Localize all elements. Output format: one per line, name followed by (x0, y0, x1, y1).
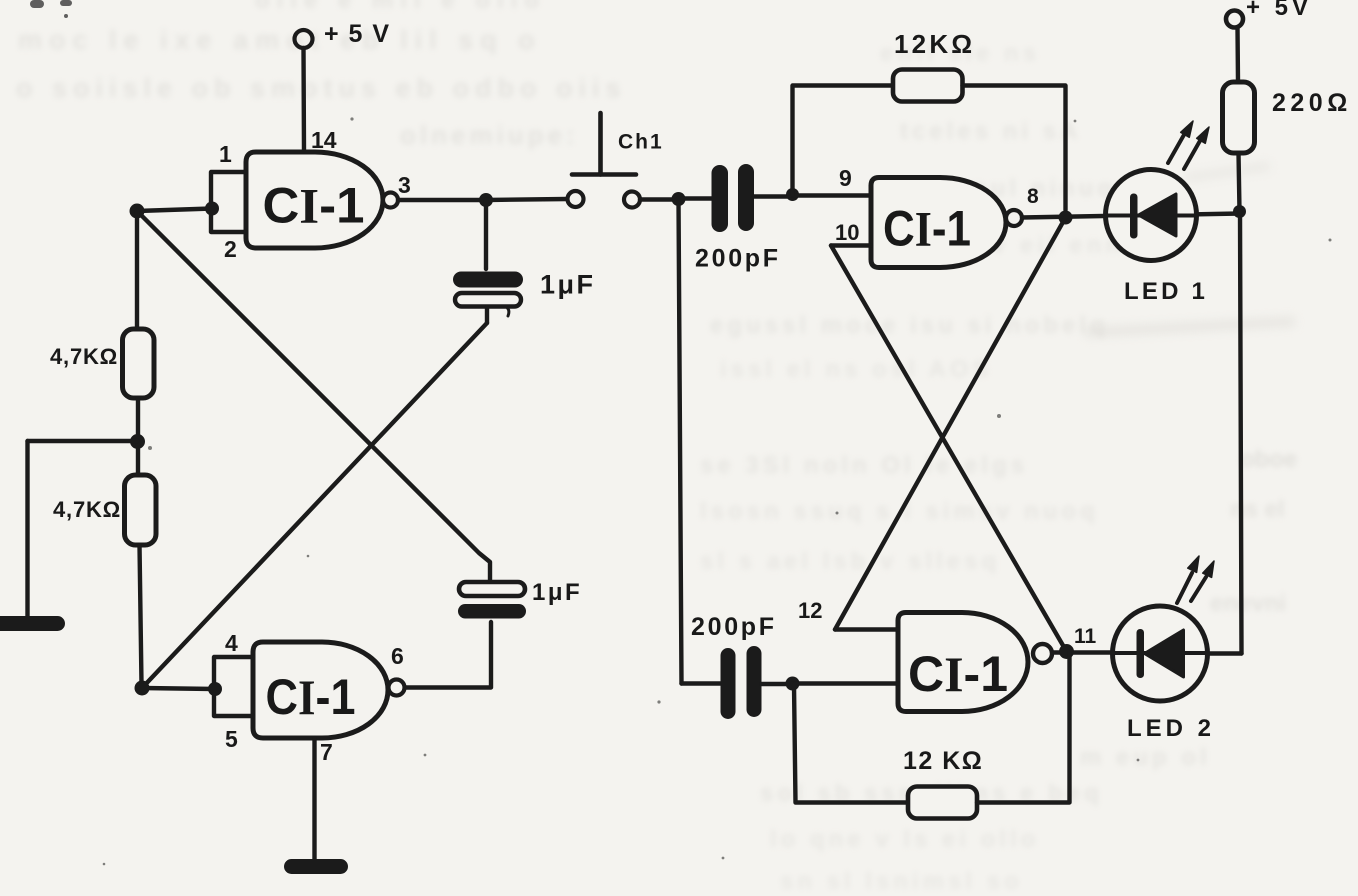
wire: diagonal C1 to node D (gate U1b input) (142, 323, 487, 688)
wire: ground drop vertical (25, 441, 29, 616)
+5V supply terminal (right) (1226, 0, 1312, 28)
svg-text:LED 2: LED 2 (1127, 715, 1215, 742)
resistor R5 12K (bottom feedback) (908, 787, 977, 819)
wire: pin 7 of U1b to ground (312, 738, 316, 859)
input bracket tying pins 1-2 of U1a (211, 172, 246, 232)
wire: node F up and over to R3 (793, 86, 894, 195)
svg-text:Ch1: Ch1 (618, 131, 664, 154)
wire: R4 down to node I (1239, 153, 1240, 211)
wire: LED2 right to rail (1207, 651, 1242, 655)
wire: R3 to U1c output node G (963, 86, 1066, 211)
LED1 (1106, 121, 1210, 261)
+5V supply terminal (left) (295, 20, 391, 48)
resistor R2 4,7K (125, 475, 157, 545)
node E junction (R1/R2/ground branch) (130, 434, 145, 449)
resistor R4 220 ohm (1223, 82, 1255, 153)
svg-text:1: 1 (219, 141, 232, 167)
faint print-through background text (0, 0, 1358, 1)
wire: R1 to node E (136, 398, 140, 441)
svg-text:8: 8 (1027, 185, 1039, 208)
wire: +5V terminal to pin 14 of U1a (301, 48, 306, 152)
svg-text:1μF: 1μF (540, 270, 596, 300)
node B junction (pin3 / C1 / switch) (479, 193, 493, 207)
node A junction (gate1 input / R1 / diagonal) (130, 204, 145, 219)
wire: node C to capacitor C3 (678, 196, 712, 200)
wire: node E left to ground drop (28, 439, 138, 443)
wire: node F to pin 9 of U1c (792, 193, 871, 197)
input bracket tying pins 4-5 of U1b (214, 657, 253, 716)
wire: node E to R2 (136, 441, 140, 475)
wire: diagonal node A to capacitor C2 (137, 211, 490, 582)
svg-text:220Ω: 220Ω (1272, 89, 1352, 117)
svg-text:12 KΩ: 12 KΩ (903, 747, 983, 775)
svg-text:+ 5 V: + 5 V (324, 20, 391, 48)
NAND gate U1d CI-1 (pins 11,12,13) (898, 613, 1028, 712)
wire: left rail to capacitor C4 (682, 681, 721, 685)
node J junction (C4 / pin 13 / R5) (786, 677, 800, 691)
wire: R2 down to node D (140, 545, 142, 684)
node G junction (pin 8 output) (1059, 211, 1073, 225)
svg-text:12: 12 (798, 598, 822, 623)
junction on U1a input bracket (205, 202, 219, 216)
wire: U1c output to LED1 (1022, 214, 1240, 218)
paper specks (103, 117, 1332, 865)
stray scan marks top-left corner (30, 0, 72, 18)
NAND gate U1a CI-1 (pins 1,2,3,14) (246, 152, 383, 248)
output bubble of U1a (pin 3) (383, 193, 398, 208)
wire: U1a output pin3 to node B (398, 198, 486, 202)
node F junction (C3 / R3 / pin 9) (786, 188, 799, 201)
svg-text:4,7KΩ: 4,7KΩ (50, 344, 118, 369)
output bubble of U1c (pin 8) (1006, 210, 1022, 226)
wire: diagonal node G to pin 12 of U1d (835, 218, 1066, 630)
wire: C2 to U1b output pin 6 (405, 622, 491, 688)
pin 10 stub of U1c (831, 243, 871, 247)
NAND gate U1b CI-1 (pins 4,5,6,7) (253, 642, 388, 738)
svg-text:4,7KΩ: 4,7KΩ (53, 497, 121, 522)
resistor R3 12K (top feedback) (893, 70, 963, 102)
svg-text:4: 4 (225, 630, 238, 656)
wire: R5 up to node H (977, 653, 1070, 803)
svg-text:11: 11 (1074, 625, 1097, 648)
pushbutton switch Ch1 (568, 113, 664, 208)
ground (under U1b pin 7) (284, 859, 348, 874)
wire: node B down to capacitor C1 (484, 200, 488, 269)
wire: diagonal pin 10 stub to node H (831, 246, 1067, 652)
wire: C3 to node F (754, 194, 790, 198)
LED2 (1113, 556, 1215, 701)
svg-text:14: 14 (311, 127, 337, 153)
wire stub below C1 (485, 307, 489, 323)
resistor R1 4,7K (123, 329, 155, 398)
svg-text:CI-1: CI-1 (908, 646, 1008, 702)
svg-text:3: 3 (398, 172, 411, 198)
wire: C4 to node J (762, 682, 791, 686)
svg-text:200pF: 200pF (691, 613, 777, 641)
capacitor C1 1uF (top plate solid, bottom plate hollow) (453, 272, 523, 317)
svg-text:1μF: 1μF (532, 579, 582, 606)
wire: node B to switch Ch1 (486, 199, 567, 200)
svg-text:200pF: 200pF (695, 245, 781, 273)
capacitor C2 1uF (top plate hollow, bottom plate solid) (458, 582, 526, 619)
capacitor C4 200pF (two solid vertical plates) (721, 646, 762, 719)
svg-text:12KΩ: 12KΩ (894, 29, 975, 59)
wire: right rail node I down to LED2 (1240, 212, 1242, 654)
output bubble of U1d (pin 11) (1033, 644, 1052, 663)
NAND gate U1c CI-1 (pins 8,9,10) (871, 178, 1006, 268)
svg-text:2: 2 (224, 236, 237, 262)
svg-text:6: 6 (391, 643, 404, 669)
svg-text:CI-1: CI-1 (883, 201, 971, 257)
svg-text:7: 7 (320, 739, 333, 765)
ground (left, under R divider) (0, 616, 65, 631)
junction on U1b input bracket (208, 682, 222, 696)
wire: left rail node C down to C4 (679, 199, 682, 684)
svg-text:CI-1: CI-1 (266, 669, 356, 725)
node D junction (135, 681, 150, 696)
svg-text:+ 5V: + 5V (1246, 0, 1312, 21)
wire: U1d output to LED2 (1052, 650, 1113, 654)
wire: node J to pin 13 of U1d (793, 681, 899, 685)
svg-text:9: 9 (839, 165, 852, 191)
node H junction (pin 11 output) (1059, 644, 1074, 659)
node I junction (R4 / LED1 / right rail) (1233, 205, 1246, 218)
output bubble of U1b (pin 6) (389, 680, 405, 696)
svg-text:5: 5 (225, 726, 238, 752)
wire: node A down to R1 (135, 211, 139, 329)
wire: node J down and right to R5 (794, 685, 908, 803)
pin 12 stub of U1d (835, 627, 898, 631)
wire: node A to U1a inputs (137, 209, 212, 212)
svg-text:CI-1: CI-1 (263, 178, 365, 234)
svg-text:10: 10 (835, 220, 859, 245)
svg-text:LED 1: LED 1 (1124, 278, 1208, 305)
wire: node D to U1b inputs (142, 688, 215, 689)
wire: +5V terminal to R4 (1235, 28, 1240, 82)
capacitor C3 200pF (two solid vertical plates) (712, 164, 755, 232)
wire: switch Ch1 to node C (640, 197, 673, 201)
node C junction (switch / C3 / left rail) (672, 192, 686, 206)
